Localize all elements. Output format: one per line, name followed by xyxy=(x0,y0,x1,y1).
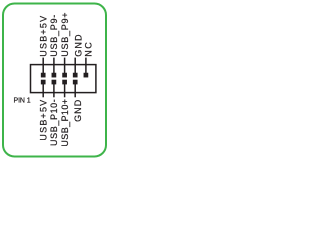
wire pin top lead 2 xyxy=(53,58,55,74)
callout border xyxy=(3,4,106,157)
wire pin bottom lead 4 xyxy=(74,83,76,97)
wire pin bottom lead 3 xyxy=(64,83,66,97)
pin square top 5 xyxy=(84,73,89,78)
pin square bottom 1 xyxy=(41,80,46,85)
svg-text:NC: NC xyxy=(83,41,93,57)
svg-text:USB+5V: USB+5V xyxy=(39,99,49,141)
svg-text:USB+5V: USB+5V xyxy=(39,15,49,57)
svg-text:GND: GND xyxy=(73,33,83,56)
pin square top 2 xyxy=(52,73,57,78)
wire pin top lead 5 xyxy=(85,58,87,74)
svg-text:USB_P9-: USB_P9- xyxy=(49,14,59,57)
svg-text:USB_P10-: USB_P10- xyxy=(49,99,59,146)
pin square bottom 4 xyxy=(73,80,78,85)
connector USB header body xyxy=(31,65,96,93)
wire pin top lead 4 xyxy=(74,58,76,74)
pin square top 3 xyxy=(62,73,67,78)
pin square bottom 3 xyxy=(62,80,67,85)
svg-text:USB_P10+: USB_P10+ xyxy=(60,99,70,147)
wire pin top lead 3 xyxy=(64,58,66,74)
pin square top 1 xyxy=(41,73,46,78)
wire pin bottom lead 1 xyxy=(42,83,44,97)
pin square top 4 xyxy=(73,73,78,78)
svg-text:USB_P9+: USB_P9+ xyxy=(60,12,70,57)
svg-text:PIN 1: PIN 1 xyxy=(14,98,31,105)
svg-text:GND: GND xyxy=(73,99,83,122)
pin square bottom 2 xyxy=(52,80,57,85)
wire pin bottom lead 2 xyxy=(53,83,55,97)
wire pin top lead 1 xyxy=(42,58,44,74)
